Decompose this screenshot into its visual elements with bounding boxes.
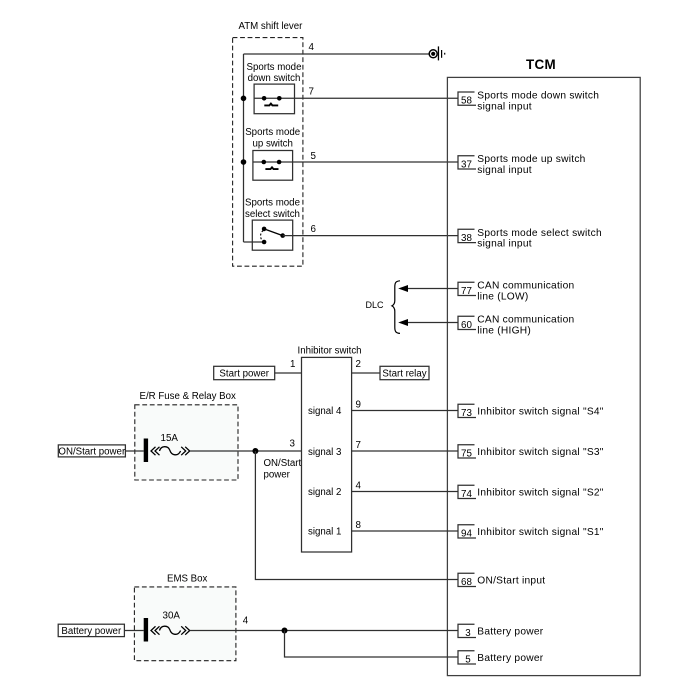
wire: signal4 pin 9 to pin 73 — [352, 410, 458, 412]
TCM pin 73 — [458, 404, 476, 419]
wire: left bus vertical — [243, 54, 245, 242]
svg-text:8: 8 — [356, 520, 362, 531]
TCM pin 58 — [458, 92, 476, 107]
svg-text:77: 77 — [461, 286, 472, 297]
junction dot at bus row 98 — [241, 96, 247, 102]
svg-text:signal input: signal input — [477, 239, 532, 250]
wire 4 to ground — [244, 53, 430, 55]
arrow to DLC (row 60) — [398, 319, 408, 326]
wire: pin 77 to arrow — [406, 288, 458, 290]
svg-text:Sports mode up switch: Sports mode up switch — [477, 154, 585, 165]
svg-text:signal 2: signal 2 — [308, 487, 341, 498]
wire: ON/Start power to fuse — [125, 450, 143, 452]
DLC brace — [392, 281, 400, 334]
svg-text:74: 74 — [461, 489, 472, 500]
svg-text:ON/Start power: ON/Start power — [58, 447, 126, 458]
svg-text:4: 4 — [243, 616, 249, 627]
svg-text:30A: 30A — [163, 610, 181, 621]
svg-text:Sports mode: Sports mode — [247, 62, 302, 73]
svg-text:line (HIGH): line (HIGH) — [477, 326, 531, 337]
wire: signal1 pin 8 to pin 94 — [352, 530, 458, 532]
svg-text:signal input: signal input — [477, 165, 532, 176]
svg-text:94: 94 — [461, 528, 472, 539]
ATM shift lever dashed enclosure — [233, 38, 303, 267]
Battery power source box — [58, 624, 124, 636]
svg-text:3: 3 — [465, 628, 471, 639]
TCM pin 37 — [458, 156, 476, 171]
wire: pin 60 to arrow — [406, 322, 458, 324]
TCM pin 75 — [458, 445, 476, 460]
ground G (body ground) — [429, 46, 445, 60]
svg-text:signal 4: signal 4 — [308, 406, 342, 417]
svg-text:Sports mode down switch: Sports mode down switch — [477, 91, 599, 102]
TCM pin 74 — [458, 485, 476, 500]
svg-text:9: 9 — [356, 400, 361, 411]
svg-text:37: 37 — [461, 159, 472, 170]
svg-text:CAN communication: CAN communication — [477, 315, 574, 326]
wire: battery power to fuse — [124, 630, 143, 632]
svg-text:signal 1: signal 1 — [308, 527, 341, 538]
TCM pin 68 — [458, 573, 476, 588]
svg-text:ON/Start input: ON/Start input — [477, 575, 545, 586]
TCM pin 3 — [458, 624, 476, 639]
svg-text:select switch: select switch — [245, 209, 300, 220]
TCM pin 60 — [458, 316, 476, 331]
wire: start power to pin 1 — [275, 372, 302, 374]
switch SW2 Sports mode up switch — [253, 151, 293, 181]
wire: select switch to pin 38 — [283, 235, 458, 237]
TCM pin 38 — [458, 229, 476, 244]
svg-text:Sports mode: Sports mode — [245, 198, 300, 209]
svg-text:3: 3 — [290, 439, 296, 450]
svg-text:7: 7 — [356, 440, 361, 451]
svg-text:DLC: DLC — [366, 300, 385, 310]
E/R fuse and relay dashed box — [135, 405, 238, 480]
EMS dashed box — [134, 587, 236, 661]
TCM pin 94 — [458, 525, 476, 540]
wire: fuse to inhibitor pin 3 — [190, 450, 302, 452]
TCM box U1 — [447, 77, 640, 675]
svg-text:68: 68 — [461, 577, 472, 588]
junction dot battery node — [282, 628, 288, 634]
svg-text:4: 4 — [309, 42, 315, 53]
svg-text:58: 58 — [461, 96, 472, 107]
wire: up switch to pin 37 — [293, 161, 458, 163]
svg-text:Inhibitor switch signal "S2": Inhibitor switch signal "S2" — [477, 487, 603, 498]
svg-text:Inhibitor switch signal "S4": Inhibitor switch signal "S4" — [477, 406, 603, 417]
svg-text:2: 2 — [356, 359, 361, 370]
svg-text:Battery power: Battery power — [61, 626, 122, 637]
svg-text:signal 3: signal 3 — [308, 447, 341, 458]
svg-text:73: 73 — [461, 408, 472, 419]
svg-text:Battery power: Battery power — [477, 653, 543, 664]
svg-text:CAN communication: CAN communication — [477, 281, 574, 292]
ON/Start power source box — [58, 445, 125, 457]
svg-text:60: 60 — [461, 320, 472, 331]
arrow to DLC (row 77) — [398, 285, 408, 292]
svg-text:line (LOW): line (LOW) — [477, 292, 528, 303]
svg-text:power: power — [264, 470, 291, 481]
junction dot ON/Start node — [252, 448, 258, 454]
svg-text:Sports mode select switch: Sports mode select switch — [477, 228, 602, 239]
svg-text:Inhibitor switch signal "S3": Inhibitor switch signal "S3" — [477, 447, 603, 458]
wire: fuse to pin 3 battery — [190, 630, 458, 632]
svg-text:Inhibitor switch signal "S1": Inhibitor switch signal "S1" — [477, 527, 603, 538]
svg-text:TCM: TCM — [526, 57, 556, 72]
svg-text:6: 6 — [311, 224, 317, 235]
TCM pin 5 — [458, 651, 476, 666]
svg-text:ATM shift lever: ATM shift lever — [239, 21, 304, 32]
svg-text:Battery power: Battery power — [477, 626, 543, 637]
fuse F1 15A — [144, 439, 190, 463]
fuse F2 30A — [144, 618, 190, 642]
Start relay box — [380, 366, 429, 379]
svg-text:75: 75 — [461, 448, 472, 459]
svg-text:Inhibitor switch: Inhibitor switch — [298, 346, 362, 357]
wire: signal2 pin 4 to pin 74 — [352, 491, 458, 493]
svg-text:down switch: down switch — [248, 73, 301, 84]
wire: ON/Start node down to pin 68 — [255, 451, 458, 580]
wire: down switch to pin 58 — [295, 97, 459, 99]
svg-text:up switch: up switch — [253, 138, 293, 149]
svg-text:1: 1 — [290, 359, 295, 370]
wire: signal3 pin 7 to pin 75 — [352, 450, 458, 452]
Start power box — [214, 366, 275, 379]
svg-text:4: 4 — [356, 481, 362, 492]
TCM pin 77 — [458, 282, 476, 297]
svg-text:E/R Fuse & Relay Box: E/R Fuse & Relay Box — [140, 391, 237, 402]
svg-text:5: 5 — [465, 654, 471, 665]
wire: pin 2 to start relay — [352, 372, 380, 374]
wire: battery node down to pin 5 — [285, 631, 459, 658]
svg-text:7: 7 — [309, 87, 314, 98]
junction dot at bus row 162 — [241, 159, 247, 165]
switch SW3 Sports mode select switch — [244, 220, 293, 250]
svg-text:15A: 15A — [161, 433, 179, 444]
svg-text:5: 5 — [311, 151, 317, 162]
svg-text:Start relay: Start relay — [382, 369, 426, 380]
svg-text:EMS Box: EMS Box — [167, 574, 208, 585]
inhibitor switch box S1 — [302, 357, 352, 552]
switch SW1 Sports mode down switch — [254, 84, 294, 114]
svg-text:Start power: Start power — [219, 369, 269, 380]
svg-text:38: 38 — [461, 233, 472, 244]
svg-text:Sports mode: Sports mode — [245, 127, 300, 138]
svg-text:signal input: signal input — [477, 101, 532, 112]
svg-text:ON/Start: ON/Start — [264, 458, 302, 469]
